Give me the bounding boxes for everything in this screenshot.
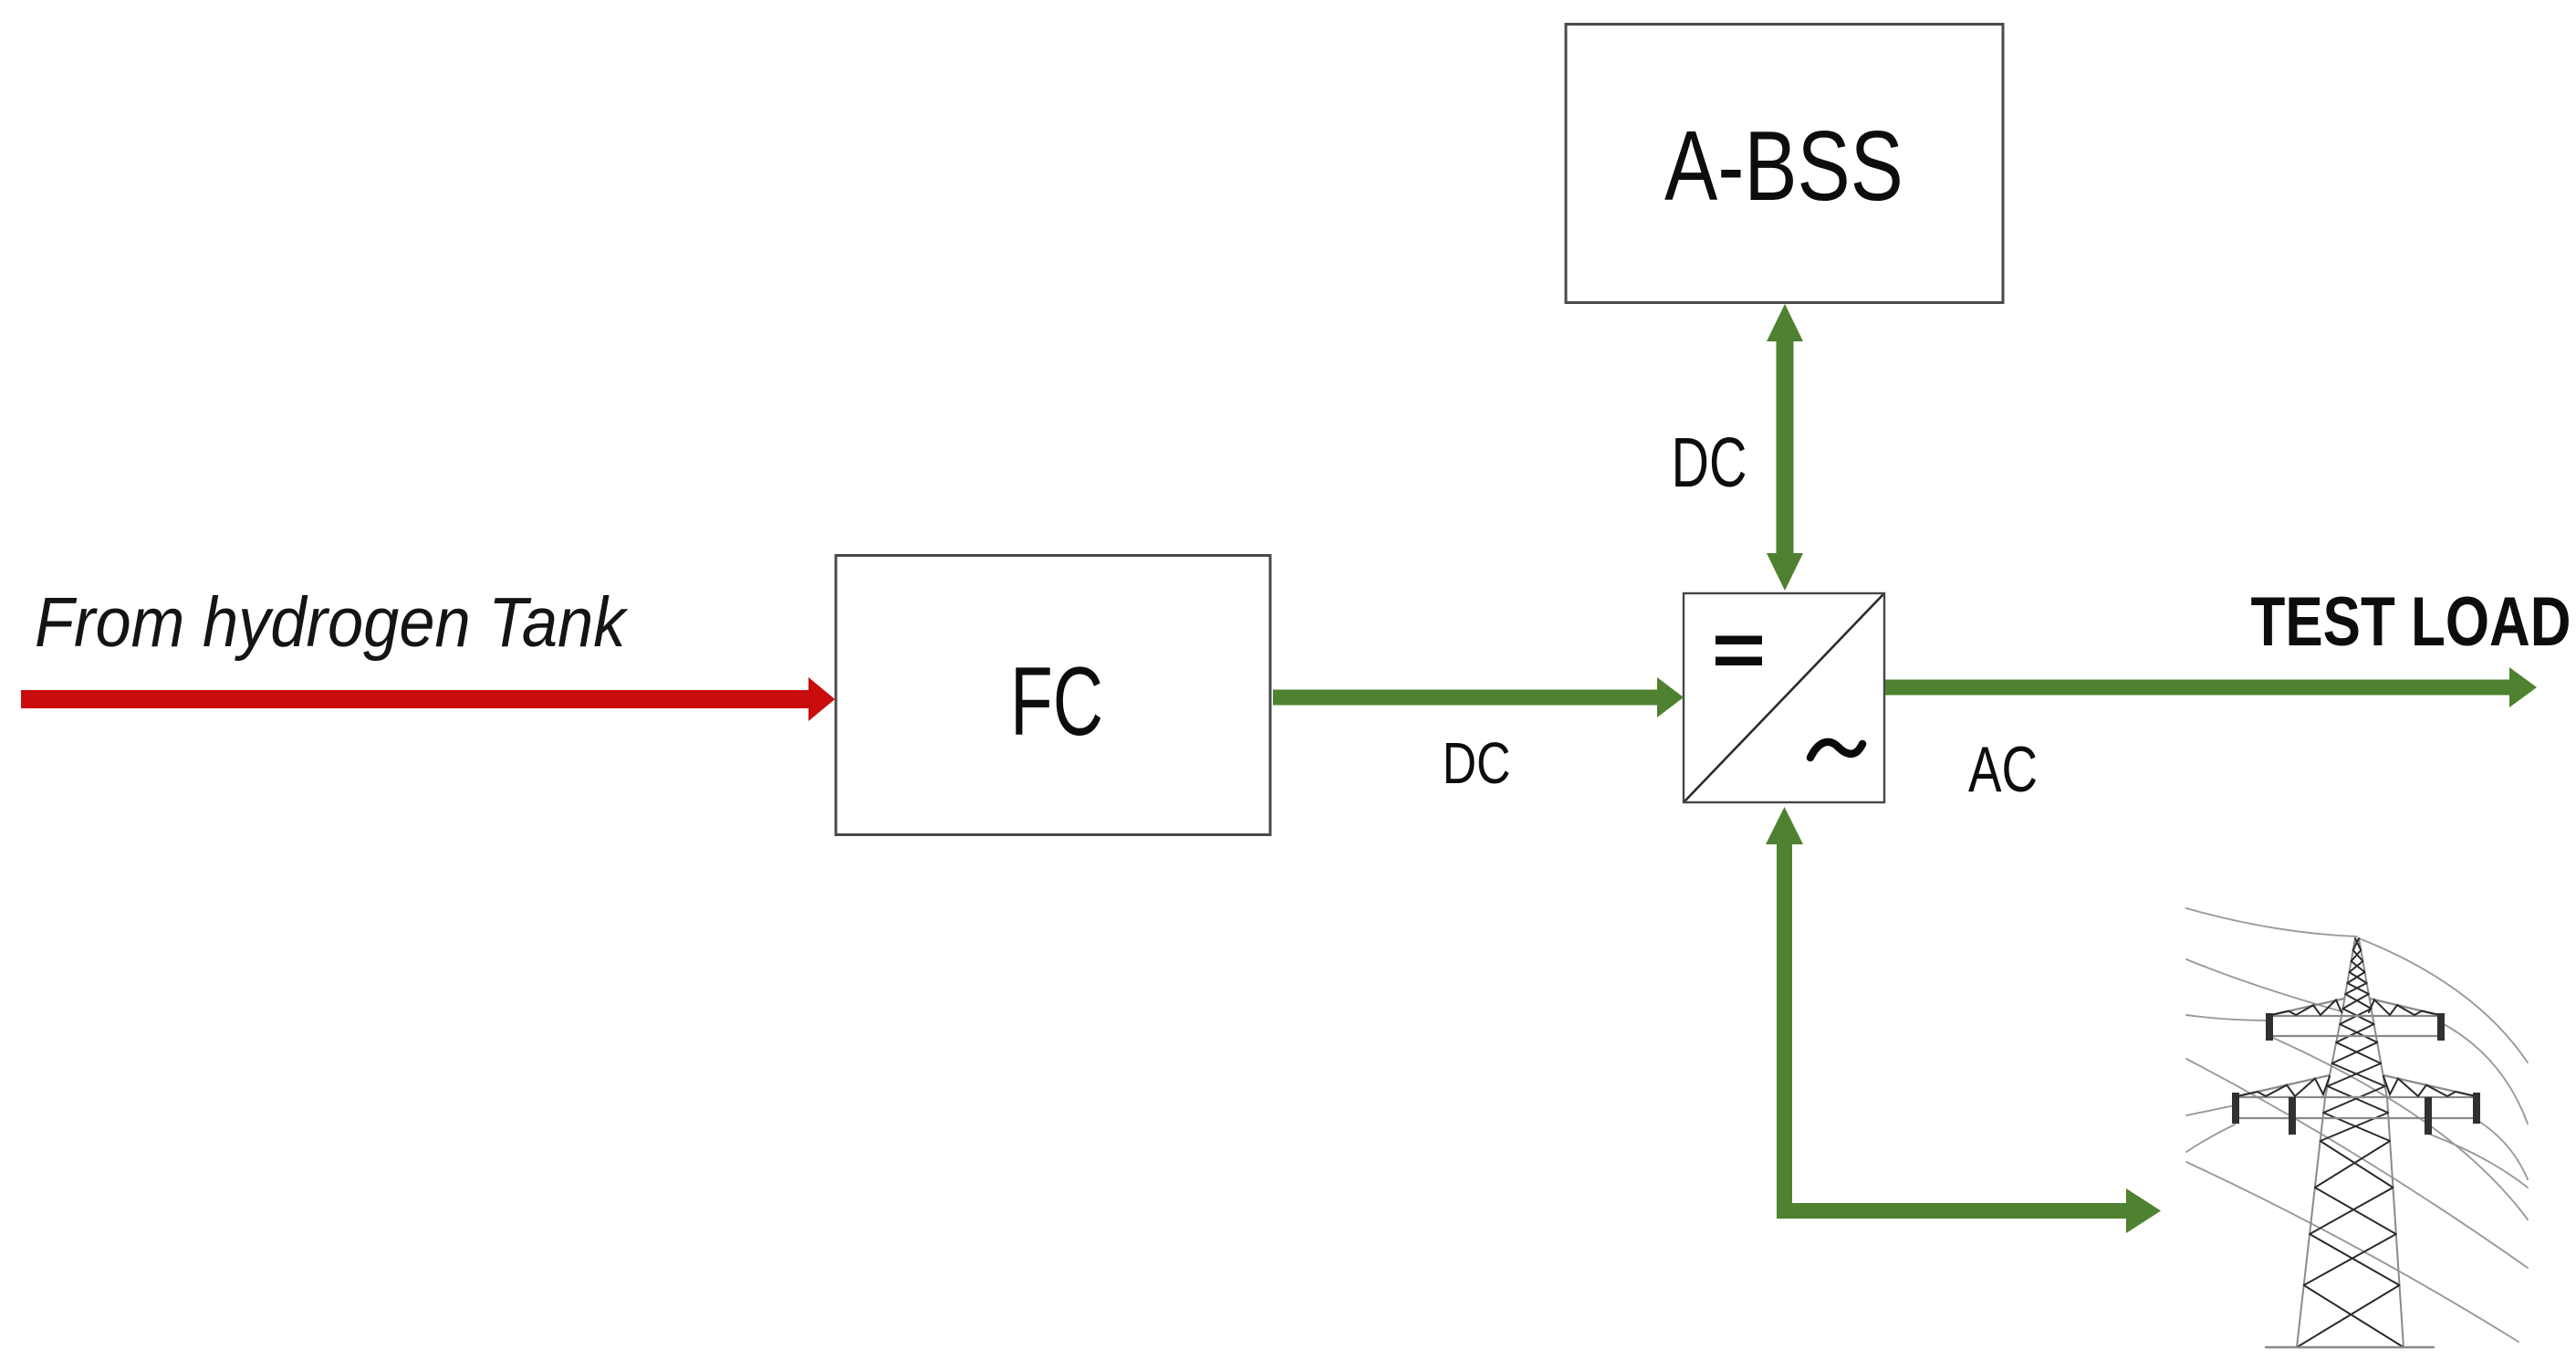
pylon upper crossarm right insulator <box>2437 1013 2445 1041</box>
pylon lattice weave <box>2297 938 2404 1347</box>
pylon mast legs <box>2297 938 2404 1347</box>
svg-text:DC: DC <box>1443 731 1511 796</box>
pylon lower crossarm right end insulator <box>2473 1093 2480 1124</box>
pylon lower crossarm <box>2236 1075 2477 1118</box>
grid pylon illustration <box>2186 908 2528 1347</box>
inverter DC symbol (=) <box>1716 636 1762 645</box>
wire: green DC double-headed arrow inverter to A-BSS <box>1767 304 1803 591</box>
wire: green DC arrow FC to inverter <box>1273 677 1684 717</box>
pylon lower crossarm left inner insulator <box>2289 1097 2296 1135</box>
wire: green AC arrow inverter to test load <box>1885 667 2537 707</box>
pylon upper crossarm <box>2269 999 2441 1036</box>
pylon upper crossarm left insulator <box>2266 1013 2273 1041</box>
block A-BSS <box>1566 25 2003 303</box>
inverter diagonal <box>1685 595 1883 801</box>
wire: green elbow arrow from grid to inverter <box>1766 807 2161 1233</box>
svg-text:AC: AC <box>1968 734 2038 805</box>
svg-text:From hydrogen Tank: From hydrogen Tank <box>35 582 628 662</box>
pylon lower crossarm left end insulator <box>2232 1093 2239 1124</box>
wire: red hydrogen feed arrow into FC <box>21 677 835 721</box>
inverter U1 (DC/AC converter) <box>1684 593 1884 802</box>
pylon ground line <box>2266 1346 2434 1348</box>
svg-text:FC: FC <box>1010 646 1103 756</box>
pylon wires (catenaries) <box>2186 908 2528 1342</box>
svg-text:DC: DC <box>1672 424 1747 502</box>
inverter AC symbol (~) <box>1810 742 1862 758</box>
pylon lower crossarm right inner insulator <box>2425 1097 2432 1135</box>
block FC (fuel cell) <box>836 556 1270 835</box>
svg-text:TEST LOAD: TEST LOAD <box>2251 582 2571 661</box>
svg-text:A-BSS: A-BSS <box>1664 110 1903 221</box>
